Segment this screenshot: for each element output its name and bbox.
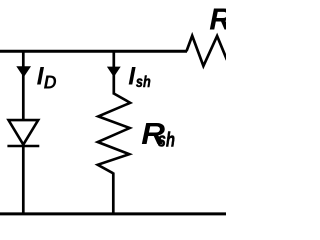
diode D1 triangle [9,120,39,145]
wire below R_sh [112,173,115,215]
wire below diode [22,145,25,214]
resistor R (series, top right) [187,36,228,66]
svg-text:I: I [128,62,136,90]
wire top horizontal [0,50,187,53]
svg-text:sh: sh [158,128,176,151]
wire bottom horizontal [0,212,226,215]
svg-text:R: R [209,1,226,36]
wire I_sh branch vertical [112,51,115,95]
diode D1 cathode bar [7,145,39,148]
wire I_D branch vertical [22,51,25,120]
arrowhead I_D current [16,66,31,77]
resistor R_sh zigzag [98,94,131,174]
arrowhead I_sh current [107,67,121,77]
svg-text:sh: sh [136,74,151,91]
svg-text:D: D [44,73,57,93]
